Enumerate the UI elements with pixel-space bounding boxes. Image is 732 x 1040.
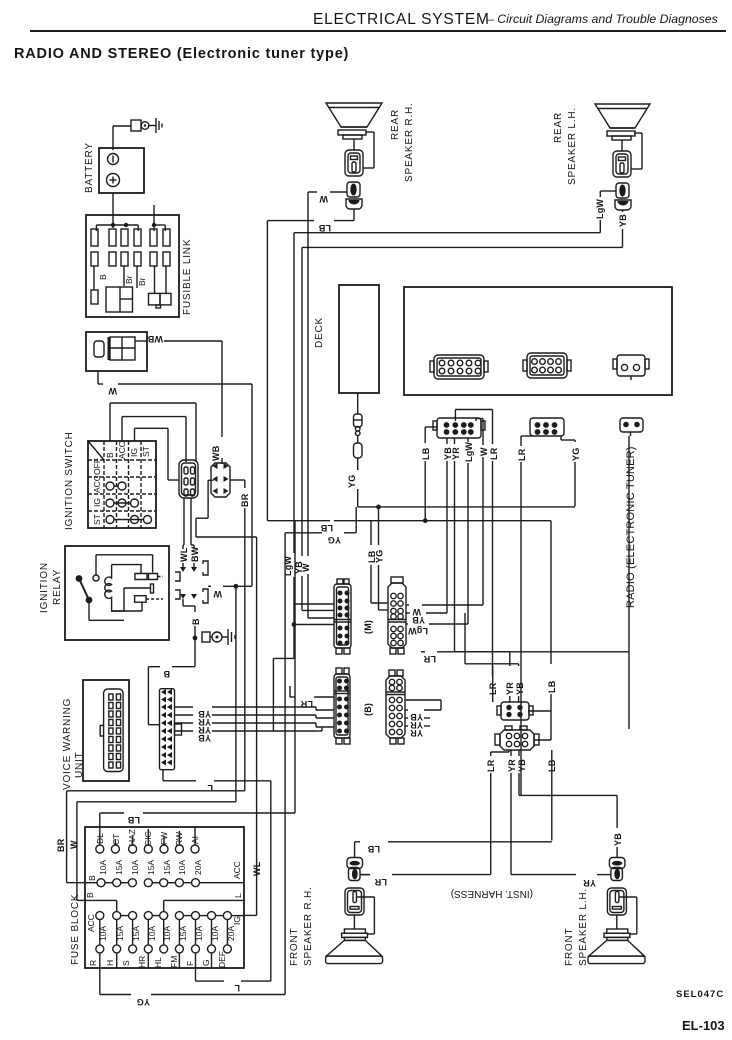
fusible link lower components [91,266,171,312]
svg-text:B: B [105,452,115,458]
svg-text:SPEAKER L.H.: SPEAKER L.H. [567,107,578,185]
svg-text:IG: IG [232,916,242,925]
wire YB into M mate [294,561,334,611]
wire W rear RH [308,192,347,556]
wire B to voice warning [148,667,195,725]
wire LB rear RH [267,209,354,521]
svg-text:Br: Br [124,275,134,284]
front speaker L.H. bullet terminals [609,847,625,881]
svg-text:UNIT: UNIT [74,751,85,778]
svg-text:FM: FM [169,956,179,968]
ignition relay box [39,546,169,640]
svg-text:Br: Br [137,277,147,286]
connector 4-pin inst [497,702,533,720]
svg-text:ST: ST [141,446,151,457]
svg-text:RADIO AND STEREO (Electronic t: RADIO AND STEREO (Electronic tuner type) [14,46,349,62]
svg-text:YB: YB [613,833,623,846]
wire LR jog to 4pin [488,666,498,702]
svg-text:REAR: REAR [553,112,564,143]
radio connector 8-pin [523,353,571,378]
wire LgW rear LH [294,191,616,553]
wire LB to 4pin [528,521,557,711]
rear speaker L.H. [553,104,650,185]
wire YG bus [285,505,575,546]
ground (relay) [228,629,235,645]
wire YB radio [443,438,453,613]
svg-text:15A: 15A [146,860,156,875]
voice warning unit box [62,680,129,790]
svg-text:– Circuit Diagrams and Trouble: – Circuit Diagrams and Trouble Diagnoses [486,12,718,26]
wire WL [244,537,262,915]
harness strip connector [160,689,182,770]
svg-text:W: W [301,563,311,572]
svg-text:LB: LB [547,680,557,693]
radio box [404,287,672,395]
svg-text:F: F [185,961,195,966]
battery [84,142,144,193]
wire L from voice warning [163,770,271,793]
connector B label [363,703,373,716]
wire LR radio 8pin [517,436,533,795]
wire YB from M [406,613,447,625]
fuse section 2 bus B and L [85,892,244,912]
svg-text:15A: 15A [162,860,172,875]
wire W into M mate [301,563,334,618]
wire LR into B mate [290,686,334,709]
svg-text:W: W [69,840,79,849]
front speaker L.H. [564,888,645,966]
wire L illumination run [421,436,629,664]
svg-text:(INST. HARNESS): (INST. HARNESS) [451,888,533,899]
svg-text:EL-103: EL-103 [682,1018,725,1033]
wire LR radio [455,410,499,676]
svg-text:WL: WL [179,547,189,562]
wire YR2 from B [405,726,430,738]
svg-text:SPEAKER R.H.: SPEAKER R.H. [303,886,314,966]
svg-text:BW: BW [190,546,200,562]
svg-text:IGNITION: IGNITION [39,562,50,613]
wire W radio [476,419,489,606]
wire B relay to ground [183,599,201,667]
svg-text:LgW: LgW [408,626,428,636]
connector 6-pin inst [495,726,539,750]
wire YB into B mate [316,707,334,710]
svg-text:W: W [213,589,222,599]
wire W to fuse block [69,586,236,900]
page header rule [30,30,726,32]
rear speaker L.H. bullet terminals [615,183,631,210]
svg-text:ELECTRICAL SYSTEM: ELECTRICAL SYSTEM [313,11,490,28]
svg-text:10A: 10A [98,860,108,875]
page number [682,1018,725,1033]
svg-text:LR: LR [489,447,499,460]
wire L branch down [628,652,630,729]
connector M (open) [388,577,406,654]
connector M label [363,620,373,634]
wire LB 6pin down [355,750,557,854]
svg-text:YG: YG [375,550,385,563]
noise suppressor box [86,332,147,371]
svg-text:YB: YB [515,682,525,695]
wire YB from B [405,700,441,722]
harness connector 10-pin black [433,418,485,438]
svg-text:IG: IG [129,448,139,457]
fuse circles mid row [86,912,244,932]
wire battery to fusible link [112,193,114,228]
svg-text:FRONT: FRONT [289,928,300,966]
inst harness label [451,888,533,899]
wire LB to connector M [367,521,388,603]
relay connector pins WL BW [175,546,208,603]
svg-text:BATTERY: BATTERY [84,142,95,193]
svg-text:YB: YB [198,733,211,743]
wire YB rear LH [302,210,628,556]
wire W relay [208,584,252,599]
voice warning connector [100,689,123,772]
svg-text:LB: LB [421,447,431,460]
svg-text:YR: YR [451,447,461,460]
svg-text:W: W [108,386,117,396]
front speaker R.H. [289,886,383,966]
svg-text:W: W [319,194,328,204]
svg-text:WB: WB [211,445,221,461]
svg-text:REAR: REAR [390,109,401,140]
svg-text:B: B [98,274,108,280]
svg-text:FUSE BLOCK: FUSE BLOCK [70,894,81,965]
wire YR from B [405,718,430,730]
fusible link wire labels B Br Br [94,266,147,290]
figure code [676,989,724,1000]
wire LgW from M [406,624,468,636]
wire YR strip 2 [175,723,317,735]
svg-text:ACC: ACC [86,914,96,932]
svg-text:WL: WL [252,861,262,876]
connector ignition harness (black pins) [211,463,230,497]
svg-text:(B): (B) [363,703,373,716]
wire LgW into M mate [283,556,334,604]
wire YG fuse R [100,533,285,1007]
fusible link bus [96,205,165,231]
radio label [625,446,637,608]
svg-text:LB: LB [318,223,331,233]
svg-text:RADIO (ELECTRONIC TUNER): RADIO (ELECTRONIC TUNER) [625,446,637,608]
wire YG to connector M [375,507,389,610]
svg-text:ST: ST [92,514,102,525]
wire YR strip [175,715,317,727]
svg-text:HR: HR [137,956,147,968]
svg-text:LgW: LgW [464,442,474,462]
svg-text:L: L [234,983,240,993]
fuse rating labels top [98,860,203,875]
svg-text:10A: 10A [130,860,140,875]
radio connector 10-pin [430,355,488,379]
svg-text:LgW: LgW [283,556,293,576]
svg-text:YR: YR [410,728,423,738]
svg-text:YB: YB [517,759,527,772]
svg-text:B: B [85,892,95,898]
wire LR 6pin down [361,750,509,887]
harness connector 8-pin black [530,418,564,436]
svg-text:B: B [163,669,170,679]
wire WB from suppressor [135,334,222,464]
fuse names bottom row [88,951,227,968]
fuse circles top row [96,845,199,853]
ignition relay internals [76,555,163,621]
radio connector 2-pin [613,355,649,380]
inline fuse and ground [202,632,228,642]
svg-text:DECK: DECK [314,317,325,348]
svg-text:IG: IG [92,498,102,507]
connector M mate (black) [334,579,351,654]
wire YR into B mate [316,715,334,718]
svg-text:LB: LB [127,815,140,825]
wire YB strip 2 [175,731,317,743]
wire YB 6pin down [517,750,623,846]
fuse rating labels bottom [98,926,236,941]
svg-text:B: B [87,875,97,881]
deck box [314,285,379,393]
svg-text:LR: LR [300,699,313,709]
svg-text:YR: YR [583,878,596,888]
wire BR [230,480,250,586]
wire LB radio [421,427,437,520]
battery ground connector [113,120,156,150]
wire YR 6pin down [507,750,609,888]
svg-text:RELAY: RELAY [52,569,63,605]
wire BR to fuse block [56,586,245,882]
svg-text:R: R [88,960,98,966]
wire YB jog to 4pin [465,613,525,702]
svg-text:YR: YR [507,759,517,772]
rear speaker R.H. [326,102,415,182]
svg-text:FUSIBLE LINK: FUSIBLE LINK [182,239,193,315]
svg-text:LR: LR [486,759,496,772]
svg-text:LB: LB [367,844,380,854]
svg-text:HL: HL [153,957,163,968]
svg-text:FRONT: FRONT [564,928,575,966]
svg-text:ACC: ACC [92,475,102,493]
wire YB strip [175,707,317,719]
front speaker R.H. bullet terminals [347,842,363,881]
wire LgW branch to M mate lower [273,604,334,731]
wire L fuse F [196,781,271,993]
svg-text:ACC: ACC [232,861,242,879]
svg-text:S: S [121,960,131,966]
connector ignition switch (white) [179,460,198,498]
wire W from suppressor [98,371,252,586]
svg-text:LB: LB [320,523,333,533]
svg-text:VOICE WARNING: VOICE WARNING [62,698,73,790]
wire ignition ACC [122,417,186,462]
svg-text:L: L [233,893,243,898]
rear speaker R.H. connector [345,150,363,176]
connector B (open) [386,670,405,744]
svg-text:IGNITION SWITCH: IGNITION SWITCH [64,431,75,530]
fuse names top row [95,829,200,846]
fusible link box [86,215,193,317]
deck lead components [347,393,362,507]
svg-text:SEL047C: SEL047C [676,989,724,1000]
wire W from M [406,605,483,617]
svg-text:BR: BR [56,838,66,852]
svg-text:WB: WB [147,334,163,344]
svg-text:YG: YG [571,448,581,461]
header title [313,11,718,28]
wire YR jog to 4pin [455,652,516,702]
wire ignition IG [135,428,180,480]
section heading [14,46,349,62]
wire LB stub 6pin [534,711,551,740]
svg-text:YG: YG [347,475,357,488]
svg-text:YG: YG [137,997,150,1007]
fusible link elements row2 [91,252,170,266]
front speaker R.H. connector [345,888,374,934]
wire YR radio [451,438,461,652]
wire LB to fuse DL [100,521,295,825]
svg-text:SPEAKER R.H.: SPEAKER R.H. [404,102,415,182]
rear speaker R.H. bullet terminals [346,182,362,209]
svg-text:OFF: OFF [92,458,102,475]
front speaker L.H. connector [607,888,636,934]
svg-text:YB: YB [618,214,628,227]
fuse circles bottom row [96,920,232,953]
wire YG radio 8pin [561,436,581,506]
svg-text:20A: 20A [193,860,203,875]
svg-text:YG: YG [328,535,341,545]
svg-text:LgW: LgW [595,199,605,219]
wire YR2 into B mate [316,723,334,731]
svg-text:G: G [201,959,211,966]
svg-text:H: H [105,960,115,966]
wire ignition B [110,403,196,462]
fuse bus row B / ACC [85,813,244,887]
svg-text:(M): (M) [363,620,373,634]
wire LR front RH [360,874,370,876]
ignition switch contacts [106,482,152,524]
fuse block box [70,827,244,968]
svg-text:ACC: ACC [117,441,127,459]
connector B mate (black) [334,668,350,744]
svg-text:10A: 10A [177,860,187,875]
svg-text:BR: BR [240,493,250,507]
harness connector 2-pin black [620,418,643,436]
svg-text:LR: LR [374,877,387,887]
svg-text:YB: YB [412,615,425,625]
svg-text:YR: YR [505,682,515,695]
svg-text:W: W [479,447,489,456]
wire LgW radio [464,438,474,624]
svg-text:SPEAKER L.H.: SPEAKER L.H. [578,888,589,966]
svg-text:LR: LR [423,654,436,664]
svg-text:15A: 15A [114,860,124,875]
wire WL from ignition connector [183,498,194,549]
rear speaker L.H. connector [613,151,631,177]
fusible link elements row1 [91,229,170,246]
ignition switch table [64,431,156,530]
svg-text:DEF: DEF [217,951,227,968]
wire WL harness drop [196,480,257,537]
ground (battery) [156,118,162,133]
svg-text:B: B [191,618,201,625]
svg-text:LR: LR [517,448,527,461]
wire LB bus [267,518,551,533]
